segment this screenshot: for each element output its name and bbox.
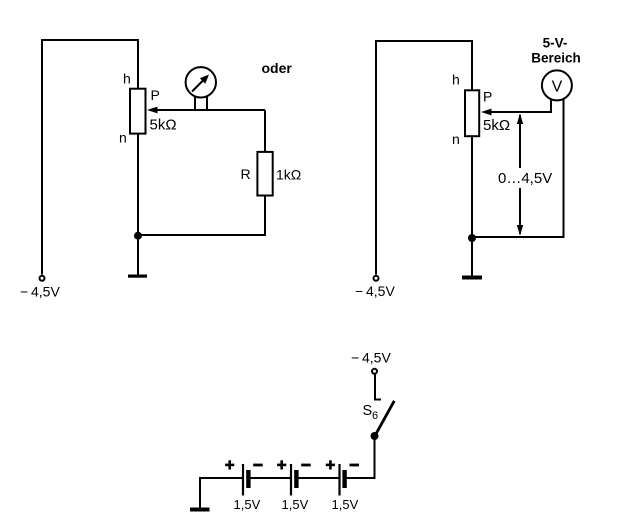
- svg-text:5kΩ: 5kΩ: [150, 117, 177, 134]
- svg-text:R: R: [241, 166, 251, 182]
- wire: between cell B1 and cell B2: [251, 477, 290, 479]
- potentiometer P 5kOhm body (right circuit): [465, 90, 479, 136]
- switch S6 fixed contact foot: [374, 399, 381, 401]
- wire: left vertical down to -4,5V terminal (right circuit): [375, 40, 377, 275]
- resistor R body: [257, 152, 272, 196]
- wire: top horizontal (left circuit): [41, 39, 138, 41]
- svg-text:V: V: [552, 79, 563, 96]
- wire: bottom horizontal (left circuit): [138, 234, 266, 236]
- wire: resistor R bottom lead: [264, 196, 266, 236]
- svg-text:h: h: [452, 72, 460, 88]
- polarity label + (cell B1): [225, 460, 234, 469]
- switch S6 blade: [375, 401, 395, 436]
- voltmeter V (right circuit): [542, 70, 572, 100]
- ground (left circuit): [128, 275, 147, 278]
- svg-text:− 4,5V: − 4,5V: [351, 350, 391, 366]
- wire: junction to ground (left circuit): [137, 235, 139, 275]
- wire: between cell B2 and cell B3: [299, 477, 339, 479]
- ground (right circuit): [462, 276, 482, 280]
- polarity label + (cell B3): [326, 460, 335, 469]
- svg-text:P: P: [151, 87, 160, 103]
- polarity label - (cell B1): [253, 464, 263, 467]
- potentiometer P 5kOhm body (left circuit): [130, 89, 146, 134]
- wire: junction to ground (right circuit): [471, 237, 473, 276]
- svg-text:1,5V: 1,5V: [332, 497, 359, 512]
- svg-text:0…4,5V: 0…4,5V: [498, 170, 552, 187]
- polarity label - (cell B3): [350, 464, 360, 467]
- svg-text:S: S: [363, 403, 373, 419]
- wire: battery top wire from third cell to switch branch: [347, 477, 376, 479]
- svg-text:6: 6: [372, 410, 378, 422]
- wire: top horizontal (right circuit): [375, 40, 473, 42]
- wire: potentiometer P top lead (right circuit): [471, 40, 473, 90]
- svg-text:P: P: [483, 89, 492, 105]
- svg-text:oder: oder: [262, 60, 293, 76]
- battery cell B1 1,5V: [243, 464, 251, 496]
- svg-text:− 4,5V: − 4,5V: [355, 283, 395, 299]
- svg-text:− 4,5V: − 4,5V: [20, 284, 60, 300]
- wire: potentiometer P top lead: [137, 39, 139, 88]
- wire: wiper horizontal to resistor branch: [150, 109, 265, 111]
- ground (battery circuit): [190, 508, 210, 512]
- wire: potentiometer bottom lead to junction (right circuit): [471, 136, 473, 237]
- terminal -4,5V (battery circuit): [372, 369, 377, 374]
- terminal -4,5V (left circuit): [40, 276, 45, 281]
- svg-text:Bereich: Bereich: [531, 51, 581, 66]
- wire: wiper horizontal to voltmeter (right circuit): [484, 111, 551, 113]
- wire: resistor R top lead: [264, 110, 266, 151]
- battery cell B3 1,5V: [340, 464, 347, 496]
- wiper arrowhead (left pot): [147, 107, 158, 114]
- wire: left vertical down to -4,5V terminal (left circuit): [41, 39, 43, 275]
- svg-text:1,5V: 1,5V: [282, 497, 309, 512]
- wire: voltmeter left lead down to wiper wire: [550, 99, 552, 113]
- wire: potentiometer bottom lead to junction: [137, 133, 139, 235]
- meter M (analog meter, left circuit): [186, 67, 216, 110]
- junction node (right circuit): [468, 234, 476, 242]
- dimension arrow 0...4,5V (double-headed vertical): [517, 114, 523, 236]
- svg-text:1,5V: 1,5V: [234, 497, 261, 512]
- wiper arrowhead (right pot): [481, 109, 492, 116]
- wire: bottom horizontal (right circuit): [472, 236, 565, 238]
- battery cell B2 1,5V: [291, 464, 299, 496]
- switch S6 pivot node: [371, 432, 379, 440]
- svg-text:1kΩ: 1kΩ: [276, 167, 301, 183]
- label S6: [363, 403, 379, 422]
- terminal -4,5V (right circuit): [374, 276, 379, 281]
- wire: leftmost horizontal to first cell: [199, 477, 242, 479]
- polarity label + (cell B2): [277, 460, 286, 469]
- junction node (left circuit): [134, 232, 142, 240]
- svg-text:n: n: [452, 131, 460, 147]
- svg-text:n: n: [119, 130, 127, 146]
- wire: switch pivot down to battery string: [374, 436, 376, 479]
- svg-text:5kΩ: 5kΩ: [483, 117, 510, 134]
- wire: ground drop (battery circuit): [199, 478, 201, 508]
- svg-text:5-V-: 5-V-: [543, 36, 568, 51]
- polarity label - (cell B2): [301, 464, 311, 467]
- svg-text:h: h: [123, 71, 131, 87]
- wire: terminal down to switch fixed contact: [374, 374, 376, 400]
- wire: voltmeter right lead down to bottom wire: [563, 99, 565, 238]
